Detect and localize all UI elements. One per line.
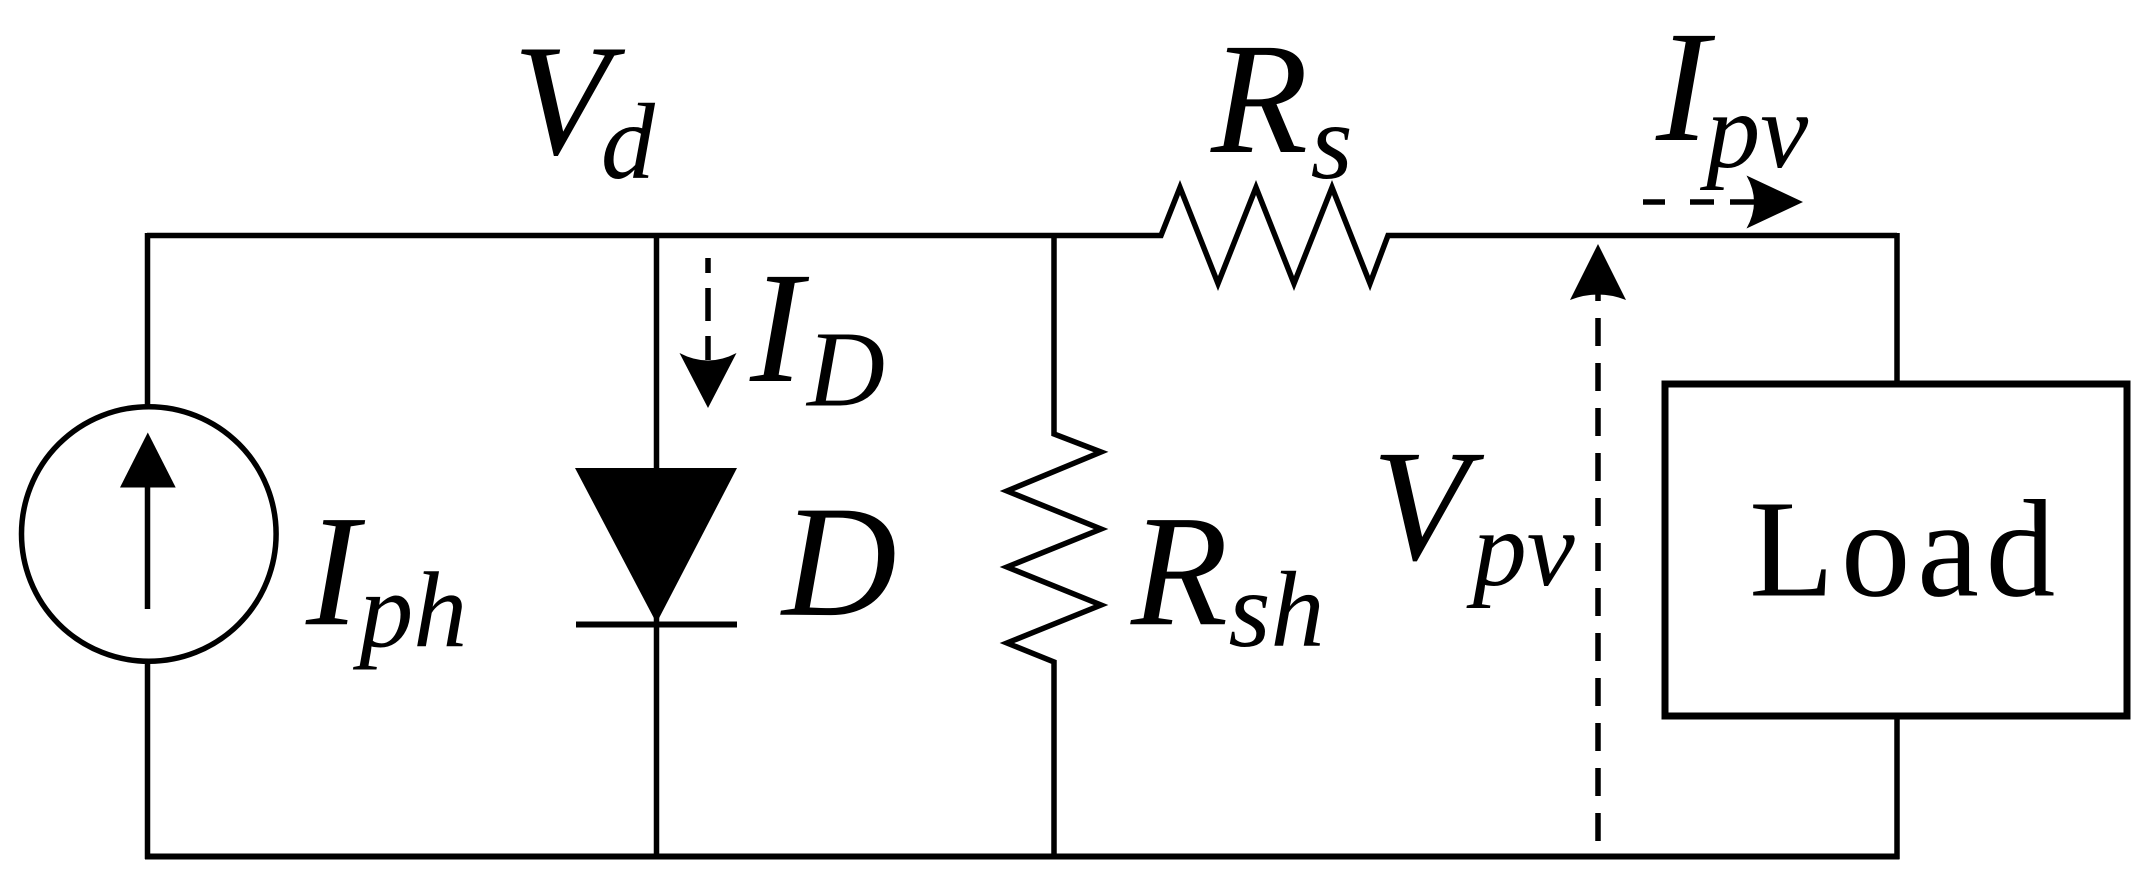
- svg-text:d: d: [601, 83, 656, 202]
- svg-text:pv: pv: [1466, 490, 1575, 609]
- svg-text:V: V: [1372, 418, 1485, 594]
- svg-text:ph: ph: [352, 552, 467, 671]
- svg-text:I: I: [305, 483, 366, 659]
- svg-text:s: s: [1311, 83, 1353, 202]
- svg-text:D: D: [805, 311, 885, 430]
- svg-text:I: I: [749, 240, 810, 416]
- svg-text:sh: sh: [1229, 551, 1325, 670]
- svg-text:D: D: [780, 474, 897, 650]
- svg-text:Load: Load: [1749, 473, 2055, 627]
- svg-text:R: R: [1130, 483, 1228, 659]
- svg-text:pv: pv: [1699, 72, 1808, 191]
- svg-text:R: R: [1210, 11, 1308, 187]
